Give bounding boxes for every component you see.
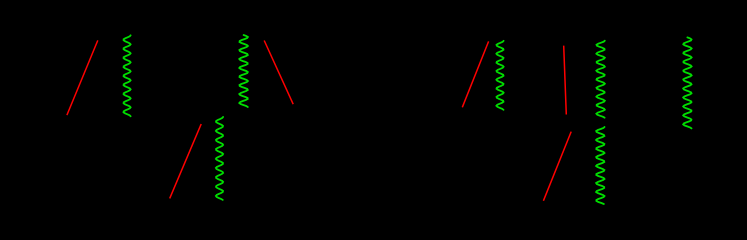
photon P2 (green wavy line) <box>216 117 223 200</box>
fermion F5 (red straight propagator) <box>564 46 567 115</box>
photon P6 (green wavy line) <box>596 127 604 204</box>
photon P4 (green wavy line) <box>496 41 503 110</box>
photon P3 (green wavy line) <box>239 35 248 107</box>
fermion F3 (red straight propagator) <box>264 41 293 105</box>
fermion F6 (red straight propagator) <box>543 132 571 201</box>
fermion F1 (red straight propagator) <box>67 40 98 115</box>
photon P7 (green wavy line) <box>683 37 691 128</box>
fermion F4 (red straight propagator) <box>462 41 488 107</box>
photon P1 (green wavy line) <box>124 35 131 116</box>
photon P5 (green wavy line) <box>596 41 604 118</box>
fermion F2 (red straight propagator) <box>170 124 202 198</box>
